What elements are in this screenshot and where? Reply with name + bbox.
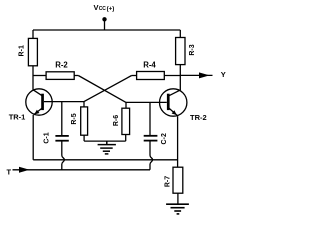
wire: Vcc stub: [104, 20, 106, 30]
wire: top rail: [33, 29, 180, 31]
svg-text:R-4: R-4: [143, 61, 156, 70]
svg-text:R-2: R-2: [55, 61, 68, 70]
wire: R1 top lead: [32, 30, 34, 38]
wire: R2 left lead: [33, 75, 46, 77]
wire: cross-coupling diagonal from R2 to TR-2 base: [78, 76, 126, 103]
transistor TR-2: [160, 89, 187, 116]
resistor R7: [164, 167, 182, 193]
wire: R5 bottom lead: [83, 135, 85, 141]
resistor R1: [19, 38, 38, 65]
svg-text:R-5: R-5: [71, 113, 78, 124]
svg-text:C-2: C-2: [161, 133, 168, 144]
wire: R1 bottom to TR-1 collector: [32, 66, 34, 90]
resistor R5: [71, 107, 88, 135]
T input arrowhead: [19, 167, 30, 173]
ground (below R7): [166, 204, 189, 214]
wire: emitter bus: [33, 159, 177, 161]
svg-text:R-7: R-7: [164, 176, 171, 187]
svg-text:R-1: R-1: [19, 45, 26, 56]
svg-text:TR-1: TR-1: [9, 112, 26, 121]
wire: TR-1 emitter drop: [32, 115, 34, 160]
wire: R6 bottom lead: [125, 135, 127, 142]
svg-text:TR-2: TR-2: [190, 113, 207, 122]
wire: R4 left lead: [132, 75, 137, 77]
svg-text:T: T: [7, 167, 12, 176]
wire: TR-2 base lead: [126, 101, 167, 103]
capacitor C1: [44, 132, 69, 143]
svg-text:CC: CC: [99, 6, 107, 12]
wire: C2 bottom link hopping over emitter bus: [150, 141, 153, 169]
wire: cross-coupling diagonal from R4 to TR-1 base: [84, 76, 132, 102]
ground (center, between R5 and R6): [98, 141, 116, 154]
svg-text:C-1: C-1: [44, 132, 51, 143]
wire: Y output line: [180, 74, 212, 76]
Y output arrowhead: [199, 72, 210, 78]
wire: TR-2 emitter drop to R7: [177, 116, 179, 167]
wire: R2 right lead: [74, 75, 78, 77]
resistor R4: [137, 61, 165, 80]
transistor TR-1: [26, 89, 52, 115]
wire: ground bus between R5 and R6: [84, 140, 126, 142]
wire: C1 bottom link hopping over emitter bus: [62, 142, 65, 170]
wire: R3 bottom to TR-2 collector: [179, 65, 181, 91]
wire: C1 top link from TR-1 base: [61, 102, 63, 136]
wire: R4 right lead to collector node: [164, 75, 180, 77]
resistor R3: [176, 38, 196, 65]
resistor R2: [46, 61, 74, 80]
capacitor C2: [144, 133, 168, 144]
svg-text:R-3: R-3: [189, 44, 196, 55]
svg-text:(+): (+): [107, 5, 115, 12]
wire: R3 top lead: [179, 30, 181, 38]
resistor R6: [113, 108, 130, 134]
wire: R7 bottom to ground: [177, 193, 179, 203]
wire: C2 top link from TR-2 base: [149, 102, 151, 135]
label Vcc (+): [94, 3, 115, 12]
Vcc terminal dot: [102, 17, 106, 21]
svg-text:R-6: R-6: [113, 115, 120, 126]
svg-text:Y: Y: [221, 70, 226, 79]
wire: base node link to R6 top: [125, 102, 127, 108]
wire: base node link to R5 top: [83, 102, 85, 107]
wire: TR-1 base lead: [44, 101, 84, 103]
wire: trigger input line: [13, 169, 151, 171]
